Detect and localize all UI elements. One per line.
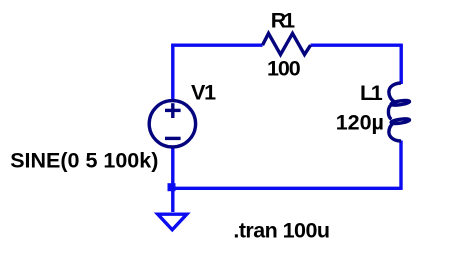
svg-text:120µ: 120µ [336,111,384,135]
svg-text:100: 100 [267,57,301,81]
svg-text:L1: L1 [360,81,383,105]
svg-text:V1: V1 [191,81,216,105]
svg-text:SINE(0 5 100k): SINE(0 5 100k) [10,149,158,173]
svg-text:R1: R1 [271,8,295,32]
svg-text:.tran 100u: .tran 100u [233,219,329,243]
